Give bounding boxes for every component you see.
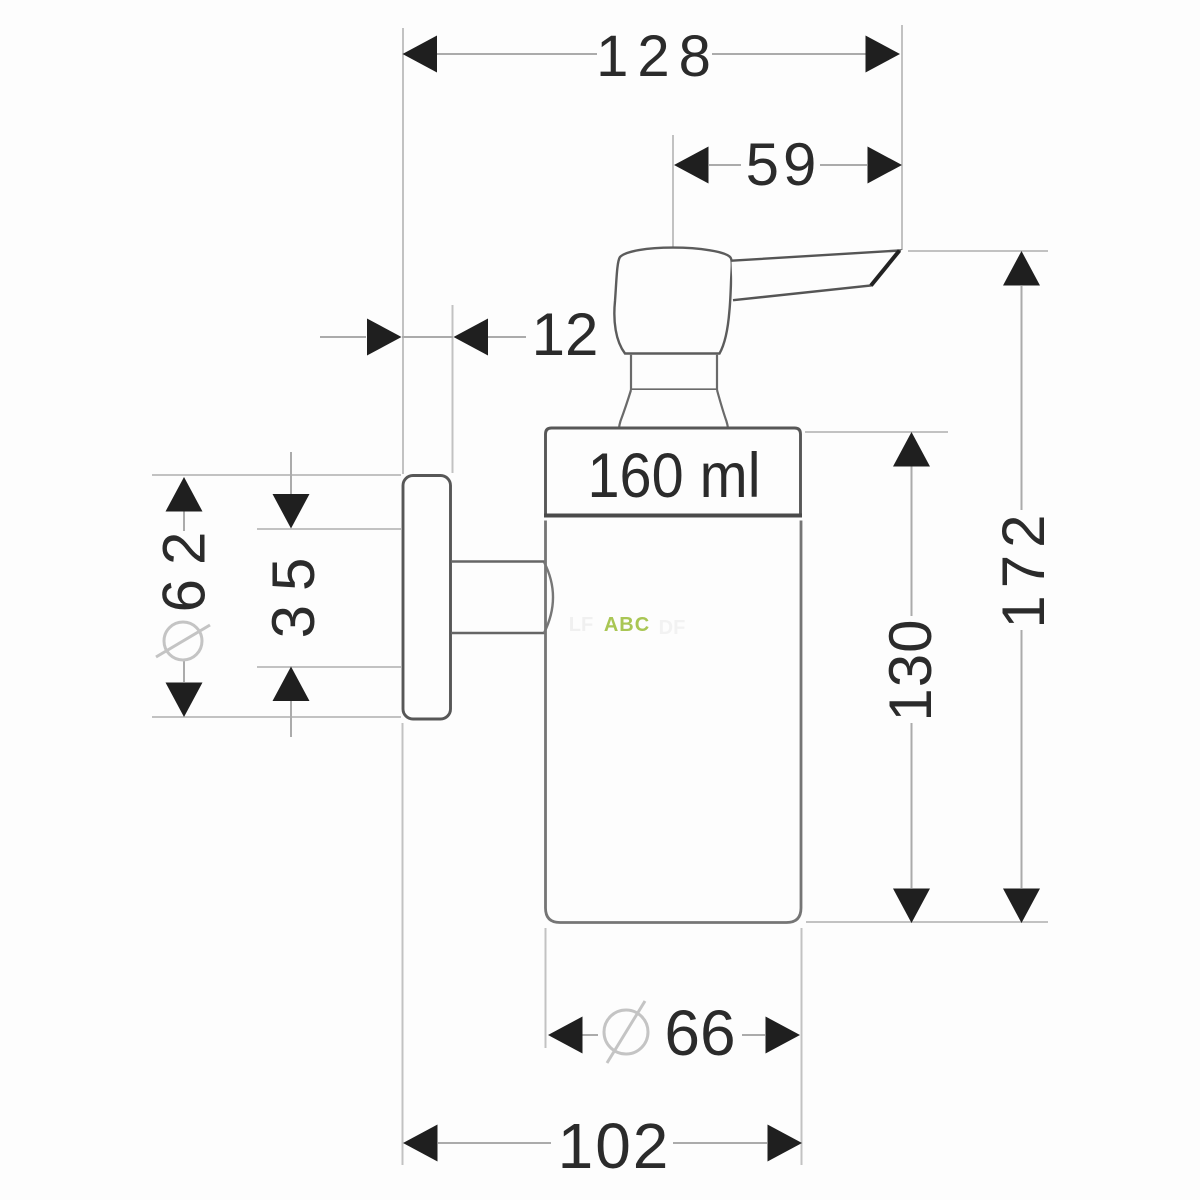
dimension 12 arrow right (points left): [454, 319, 489, 356]
pump neck: [631, 355, 717, 390]
holder ring bottom edge: [544, 514, 802, 518]
dimension 12 line: [320, 336, 366, 338]
extension line mount hole bottom (y=667): [257, 666, 401, 668]
dimension 35 line: [290, 452, 292, 494]
dimension d66 arrow right: [766, 1017, 801, 1054]
arm end cap arc: [544, 562, 553, 633]
svg-text:160 ml: 160 ml: [588, 441, 761, 511]
svg-text:130: 130: [877, 618, 944, 721]
svg-text:66: 66: [664, 997, 735, 1069]
dimension 102 arrow left: [403, 1125, 438, 1162]
pump lever tip edge (thick): [871, 251, 900, 286]
extension line bottle left bottom vertical (x=545.5): [545, 928, 547, 1048]
extension line plate bottom left horizontal (y=717): [152, 716, 401, 718]
extension line right vertical (x=902 top): [901, 25, 903, 250]
pump lever handle: [732, 251, 900, 301]
extension line left vertical (wall line, x=403 top): [402, 28, 404, 474]
dimension 172 arrow top: [1003, 251, 1040, 286]
svg-text:ABC: ABC: [604, 614, 650, 636]
svg-text:LF: LF: [569, 614, 593, 636]
dimension 59 arrow right: [868, 147, 903, 184]
dimension 59 arrow left: [674, 147, 709, 184]
dimension 128 line: [437, 53, 597, 55]
arm bottom line: [451, 632, 545, 635]
svg-text:12: 12: [532, 301, 599, 368]
svg-text:128: 128: [596, 24, 720, 89]
extension line bottle bottom right horizontal (y=922): [806, 921, 1048, 923]
extension line bottle right bottom vertical (x=801.5): [801, 928, 803, 1165]
wall plate: [403, 476, 451, 720]
dimension d62 line: [183, 511, 185, 531]
arm top line: [451, 560, 545, 563]
extension line handle tip right horizontal (y=251): [908, 250, 1048, 252]
dimension d66 arrow left: [548, 1017, 583, 1054]
extension line ring top right horizontal (y=432): [805, 431, 948, 433]
dimension 128 arrow left: [403, 36, 438, 73]
dimension 102 line: [438, 1142, 551, 1144]
dimension 35 arrow top (points down): [273, 494, 310, 529]
dimension d62 arrow bottom: [166, 683, 203, 718]
extension line pump top (x=673): [672, 135, 674, 247]
glass bottle body: [546, 521, 802, 923]
dimension 128 arrow right: [866, 36, 901, 73]
dimension 102 arrow right: [768, 1125, 803, 1162]
dimension 12 arrow left (points right): [367, 319, 402, 356]
svg-text:35: 35: [260, 544, 327, 639]
extension line plate front vertical (x=452.5): [452, 305, 454, 473]
holder ring 160 ml: [546, 428, 801, 517]
dimension d66 diameter symbol: [604, 1001, 648, 1063]
svg-text:62: 62: [151, 518, 218, 613]
dimension d62 diameter symbol: [156, 622, 210, 660]
svg-text:59: 59: [746, 131, 821, 198]
dimension 172 arrow bottom: [1003, 889, 1040, 924]
pump skirt: [619, 390, 728, 428]
dimension 35 arrow bottom (points up): [273, 667, 310, 702]
extension line wall bottom vertical (x=402.5): [402, 723, 404, 1165]
extension line plate top left horizontal (y=475): [152, 474, 401, 476]
svg-text:102: 102: [558, 1110, 671, 1182]
dimension d66 line: [582, 1034, 598, 1036]
dimension 59 line: [709, 164, 741, 166]
pump knob: [614, 248, 731, 354]
dimension 130 arrow top: [893, 432, 930, 467]
svg-text:172: 172: [990, 507, 1057, 628]
dimension 130 arrow bottom: [893, 889, 930, 924]
dimension d62 arrow top: [166, 477, 203, 512]
extension line mount hole top (y=529): [257, 528, 401, 530]
dimension 172 line: [1021, 286, 1023, 510]
svg-text:DF: DF: [659, 617, 686, 639]
dimension 130 line: [911, 466, 913, 616]
